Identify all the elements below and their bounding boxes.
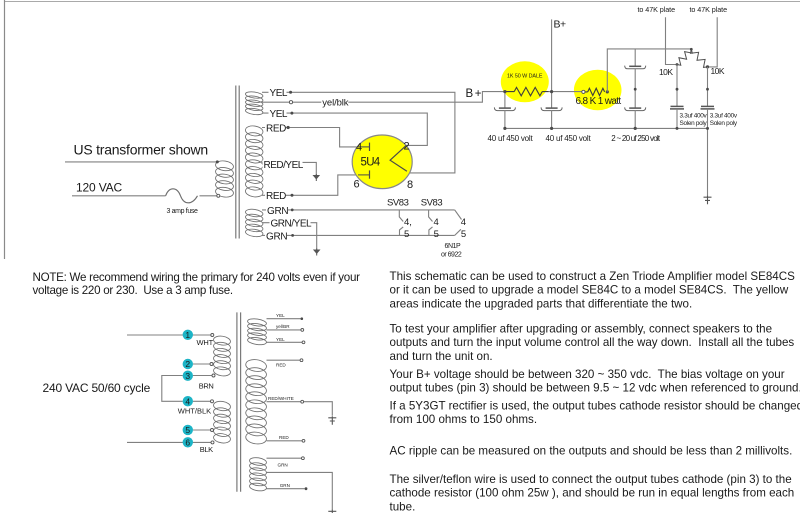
svg-text:2: 2 xyxy=(185,359,190,369)
svg-text:5: 5 xyxy=(404,229,409,240)
wire terminal 1 (WHT) xyxy=(127,334,211,336)
svg-text:3 amp fuse: 3 amp fuse xyxy=(167,208,198,215)
wire pin 4 inside tube xyxy=(358,146,370,148)
svg-text:Solen poly: Solen poly xyxy=(680,120,708,127)
svg-text:3.3uf 400v: 3.3uf 400v xyxy=(680,113,708,120)
svg-text:4: 4 xyxy=(356,142,362,154)
terminal pad 3 xyxy=(183,371,193,381)
ground RED/WHITE xyxy=(328,416,336,425)
node R2 left xyxy=(582,90,585,93)
node GRN bottom xyxy=(291,234,294,237)
fuse F1 3 amp xyxy=(166,189,198,203)
node GRN top xyxy=(291,209,294,212)
node R2 right xyxy=(606,90,609,93)
label YEL top xyxy=(269,88,287,98)
label yel/blk xyxy=(321,98,348,107)
label RED bottom xyxy=(265,191,286,201)
svg-text:yel/blk: yel/blk xyxy=(322,98,348,109)
node yel/blk xyxy=(289,101,292,104)
svg-text:RED/WHITE: RED/WHITE xyxy=(268,396,294,401)
terminal circle 1 xyxy=(211,334,214,337)
page left border xyxy=(4,0,6,259)
capacitor C6 3.3uf right xyxy=(707,67,709,107)
svg-text:RED/YEL: RED/YEL xyxy=(264,160,304,171)
wire RED/WHITE center tap xyxy=(267,402,333,416)
SV83 #1 heater tap pins 4/5 xyxy=(399,210,403,236)
svg-text:5U4: 5U4 xyxy=(361,157,381,169)
capacitor C1 40uf 450v xyxy=(504,92,506,109)
svg-text:The silver/teflon wire is used: The silver/teflon wire is used to connec… xyxy=(390,473,792,486)
transformer T1 heater winding (GRN) xyxy=(245,208,263,237)
svg-text:GRN: GRN xyxy=(266,231,287,242)
wire GRN bottom heater rail xyxy=(262,234,455,236)
svg-text:GRN/YEL: GRN/YEL xyxy=(271,218,313,229)
node primary bottom terminal xyxy=(217,194,220,197)
svg-text:YEL: YEL xyxy=(270,88,288,99)
svg-text:or it can be used to upgrade a: or it can be used to upgrade a model SE8… xyxy=(390,284,789,297)
node C4 gnd xyxy=(634,127,637,130)
node YEL bottom xyxy=(290,112,293,115)
capacitor C2 40uf 450v xyxy=(551,92,553,109)
svg-text:5: 5 xyxy=(434,229,439,240)
svg-text:If a 5Y3GT rectifier is used,: If a 5Y3GT rectifier is used, the output… xyxy=(390,399,800,412)
svg-text:yel/BR: yel/BR xyxy=(276,324,290,329)
svg-text:from 100 ohms to 150 ohms.: from 100 ohms to 150 ohms. xyxy=(390,413,538,426)
wire yel/BR xyxy=(267,329,302,331)
node C3/C4 midpoint xyxy=(634,88,637,91)
wire 120 VAC line xyxy=(72,195,217,197)
terminal circle 4 xyxy=(211,400,214,403)
svg-text:4: 4 xyxy=(461,217,466,228)
page top border xyxy=(5,1,800,3)
svg-text:RED: RED xyxy=(266,123,286,134)
svg-text:6: 6 xyxy=(185,437,190,447)
svg-text:to 47K plate: to 47K plate xyxy=(638,5,676,14)
terminal pad 2 xyxy=(183,359,193,369)
label YEL bottom xyxy=(269,109,287,119)
transformer T1 5V winding (YEL) xyxy=(245,91,263,116)
wire terminal 3 (BRN) xyxy=(193,375,212,377)
label GRN bottom xyxy=(265,231,287,241)
node C1 gnd xyxy=(503,127,506,130)
wire RED top to pin 4 xyxy=(262,128,358,147)
svg-text:120 VAC: 120 VAC xyxy=(76,181,123,195)
svg-text:to 47K plate: to 47K plate xyxy=(690,5,728,14)
wire jumper 3-4 xyxy=(162,376,183,402)
svg-text:Solen poly: Solen poly xyxy=(710,120,738,127)
wire terminal 6 (BLK) xyxy=(127,441,212,443)
wire to 47K plate left xyxy=(666,17,678,64)
svg-text:1K 50 W DALE: 1K 50 W DALE xyxy=(507,74,543,80)
terminal pad 6 xyxy=(183,437,193,447)
svg-text:SV83: SV83 xyxy=(387,198,409,209)
terminal pad 1 xyxy=(183,330,193,340)
wire RED bottom xyxy=(267,440,303,442)
ground divider xyxy=(704,196,712,205)
wire YEL top to pin 8 riser xyxy=(262,92,455,173)
svg-text:6.8 K 1 watt: 6.8 K 1 watt xyxy=(576,96,622,107)
terminal circle 2 xyxy=(210,363,213,366)
wire primary top xyxy=(65,161,216,163)
resistor R2 6.8K zigzag xyxy=(583,88,604,95)
wire GRN top heater rail xyxy=(262,209,455,211)
svg-text:RED: RED xyxy=(276,363,286,368)
svg-text:GRN: GRN xyxy=(280,483,290,488)
wire RED top xyxy=(267,359,301,361)
wire R1 to R2 xyxy=(549,91,584,93)
wire R2 output riser xyxy=(607,49,691,92)
wire YEL bottom to pin 2 xyxy=(262,113,427,145)
transformer T1 primary winding xyxy=(215,160,234,198)
label RED/YEL xyxy=(263,160,303,170)
svg-text:5: 5 xyxy=(185,425,190,435)
6N1P heater tap pins 4/5 xyxy=(455,210,462,236)
svg-text:B+: B+ xyxy=(554,19,567,31)
node divider peak xyxy=(690,48,693,51)
node B+ feed xyxy=(503,90,506,93)
svg-text:This schematic can be used to: This schematic can be used to construct … xyxy=(390,270,796,283)
svg-text:or 6922: or 6922 xyxy=(441,251,462,258)
svg-text:Your B+ voltage should be betw: Your B+ voltage should be between 320 ~ … xyxy=(390,368,785,381)
5U4 pin 4 plate bar xyxy=(369,143,371,151)
svg-text:cathode resistor (100 ohm 25w: cathode resistor (100 ohm 25w ), and sho… xyxy=(390,487,795,500)
node primary top terminal xyxy=(216,160,219,163)
svg-text:4: 4 xyxy=(434,217,439,228)
resistor R3 10K left xyxy=(677,49,692,65)
svg-text:areas indicate the upgraded pa: areas indicate the upgraded parts that d… xyxy=(390,297,693,310)
wire to 47K plate right xyxy=(708,17,718,67)
svg-text:and turn the unit on.: and turn the unit on. xyxy=(390,350,493,363)
svg-text:WHT: WHT xyxy=(197,338,214,347)
svg-text:YEL: YEL xyxy=(270,109,288,120)
rectifier tube V1 5U4 envelope xyxy=(352,135,412,189)
wire pin 6 inside tube xyxy=(358,174,370,176)
transformer T1 HV winding (RED) xyxy=(245,125,264,198)
node RED top xyxy=(287,126,290,129)
svg-text:8: 8 xyxy=(407,179,413,191)
capacitor C5 3.3uf left xyxy=(676,65,678,107)
svg-text:To test your amplifier after u: To test your amplifier after upgrading o… xyxy=(390,323,773,336)
svg-text:AC ripple can be measured on t: AC ripple can be measured on the outputs… xyxy=(390,445,793,458)
wire yel/blk center tap to B+ xyxy=(262,92,505,103)
svg-text:NOTE: We recommend wiring the: NOTE: We recommend wiring the primary fo… xyxy=(33,271,361,284)
transformer T1 core xyxy=(236,86,239,239)
transformer T2 core xyxy=(237,312,241,491)
svg-text:240 VAC 50/60 cycle: 240 VAC 50/60 cycle xyxy=(43,381,151,395)
transformer T2 secondary YEL winding xyxy=(247,318,267,346)
label GRN/YEL xyxy=(270,218,311,228)
label GRN top xyxy=(266,206,288,216)
svg-text:4: 4 xyxy=(185,396,190,406)
transformer T2 secondary GRN winding xyxy=(249,457,267,492)
svg-text:B +: B + xyxy=(466,88,482,100)
wire terminal 4 (WHT/BLK) xyxy=(193,400,211,402)
wire RED bottom to pin 6 xyxy=(262,175,358,195)
wire YEL bottom xyxy=(267,341,303,343)
wire filter ground rail xyxy=(505,127,708,129)
node R4 bottom xyxy=(706,65,709,68)
svg-text:40 uf 450 volt: 40 uf 450 volt xyxy=(546,134,592,143)
svg-text:40 uf 450 volt: 40 uf 450 volt xyxy=(488,134,534,143)
node R3 bottom xyxy=(676,63,679,66)
svg-text:YEL: YEL xyxy=(276,337,285,342)
resistor R1 1K 50W highlight xyxy=(501,61,549,102)
svg-text:voltage is 220 or 230. Use a: voltage is 220 or 230. Use a 3 amp fuse. xyxy=(33,284,233,297)
SV83 #2 heater tap pins 4/5 xyxy=(429,210,433,236)
capacitor C3 20uf 250v upper xyxy=(634,49,636,66)
svg-text:YEL: YEL xyxy=(276,313,285,318)
svg-text:tube.: tube. xyxy=(390,500,416,513)
svg-text:10K: 10K xyxy=(659,67,673,77)
node YEL top xyxy=(289,91,292,94)
5U4 cathode wedge xyxy=(390,145,407,171)
transformer T2 primary upper xyxy=(213,335,231,377)
svg-text:2 ~ 20 uf 250 volt: 2 ~ 20 uf 250 volt xyxy=(611,134,661,143)
svg-text:WHT/BLK: WHT/BLK xyxy=(178,406,211,415)
terminal circle 3 xyxy=(212,374,215,377)
svg-text:RED: RED xyxy=(266,191,286,202)
wire GRN bottom xyxy=(267,488,305,490)
svg-text:RED: RED xyxy=(279,435,289,440)
terminal pad 4 xyxy=(183,396,193,406)
node RED bottom xyxy=(291,194,294,197)
label RED top xyxy=(265,123,286,133)
svg-text:GRN: GRN xyxy=(267,206,288,217)
ground RED/YEL xyxy=(313,175,321,180)
svg-text:6N1P: 6N1P xyxy=(445,243,461,250)
ground bottom xyxy=(328,510,336,513)
ground GRN/YEL xyxy=(313,250,321,255)
resistor R4 10K right xyxy=(691,49,708,67)
svg-text:3: 3 xyxy=(185,371,190,381)
svg-text:SV83: SV83 xyxy=(421,198,443,209)
label RED/WHITE xyxy=(267,397,292,401)
wire RED/YEL center tap xyxy=(262,162,316,175)
resistor R2 6.8K highlight xyxy=(574,70,622,111)
5U4 pin 6 plate bar xyxy=(369,170,371,178)
wire GRN/YEL center tap xyxy=(262,223,317,250)
transformer T2 secondary RED winding xyxy=(245,358,267,445)
wire GRN mid tap to ground xyxy=(267,472,333,510)
svg-text:output tubes (pin 3) should be: output tubes (pin 3) should be between 9… xyxy=(390,382,800,395)
terminal circle 5 xyxy=(211,429,214,432)
svg-text:6: 6 xyxy=(354,179,360,191)
transformer T2 primary lower xyxy=(213,400,231,444)
wire GRN top xyxy=(267,457,302,459)
wire terminal 2 xyxy=(193,363,210,365)
wire YEL top xyxy=(267,318,301,320)
svg-text:1: 1 xyxy=(185,330,190,340)
resistor R1 1K zigzag xyxy=(505,87,549,95)
wire B+ riser xyxy=(551,19,553,91)
wire terminal 5 xyxy=(193,429,211,431)
terminal circle 6 xyxy=(211,441,214,444)
svg-text:4,: 4, xyxy=(404,217,412,228)
svg-text:US transformer shown: US transformer shown xyxy=(74,142,208,158)
svg-text:3.3uf 400v: 3.3uf 400v xyxy=(710,113,738,120)
node C2 gnd xyxy=(550,127,553,130)
svg-text:GRN: GRN xyxy=(278,463,288,468)
capacitor C4 20uf 250v lower xyxy=(629,107,641,109)
svg-text:BRN: BRN xyxy=(199,382,214,391)
svg-text:outputs and turn the input vol: outputs and turn the input volume contro… xyxy=(390,336,795,349)
node B+ junction xyxy=(550,90,553,93)
svg-text:BLK: BLK xyxy=(200,445,213,454)
svg-text:10K: 10K xyxy=(711,66,725,76)
svg-text:2: 2 xyxy=(404,140,410,152)
svg-text:5: 5 xyxy=(461,229,466,240)
terminal pad 5 xyxy=(183,425,193,435)
